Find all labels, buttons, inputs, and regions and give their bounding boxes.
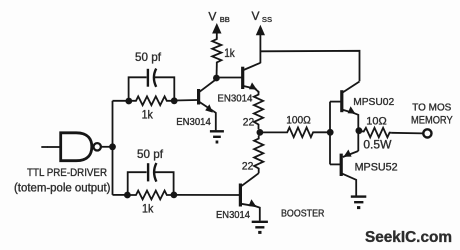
svg-text:10Ω: 10Ω xyxy=(366,115,387,127)
resistor R3 22 (top) xyxy=(254,92,263,130)
NAND gate U1 TTL pre-driver xyxy=(48,133,101,161)
node top RC left dot xyxy=(125,98,132,105)
wire bottom RC to Q3 base xyxy=(174,194,239,196)
node B junction dot xyxy=(213,75,220,82)
svg-text:1k: 1k xyxy=(224,46,235,60)
svg-text:EN3014: EN3014 xyxy=(176,116,211,128)
svg-text:EN3014: EN3014 xyxy=(217,92,252,104)
ground below Q1 xyxy=(210,131,224,142)
transistor Q2 EN3014 xyxy=(243,63,261,93)
resistor R1 1k (top) xyxy=(129,96,174,105)
wire to MPSU52 base xyxy=(330,163,340,165)
svg-text:50 pf: 50 pf xyxy=(137,147,164,161)
transistor Q3 EN3014 booster xyxy=(240,173,259,221)
resistor R6 10 ohm 0.5W xyxy=(359,128,392,138)
wire VSS rail to MPSU02 collector corner xyxy=(260,51,359,82)
wire top RC to Q1 base xyxy=(174,99,197,102)
wire base bus of output pair xyxy=(329,102,331,165)
svg-text:BB: BB xyxy=(220,15,230,24)
wire R2 to node B xyxy=(216,65,218,79)
node A junction dot at NAND output xyxy=(109,143,116,150)
svg-text:100Ω: 100Ω xyxy=(286,115,311,127)
resistor R4 22 (bottom) xyxy=(254,136,263,174)
svg-text:TO MOS: TO MOS xyxy=(412,101,451,113)
resistor R2 1k (VBB) xyxy=(212,38,221,65)
power VBB supply arrow xyxy=(212,23,221,38)
svg-text:TTL PRE-DRIVER: TTL PRE-DRIVER xyxy=(27,167,107,179)
svg-text:22: 22 xyxy=(242,160,254,172)
power VSS supply arrow xyxy=(256,25,265,63)
node bottom RC right dot xyxy=(171,192,178,199)
wire main vertical bus from top RC to bottom RC xyxy=(112,101,114,195)
svg-text:50 pf: 50 pf xyxy=(135,50,162,64)
capacitor C1 50 pf xyxy=(148,69,156,87)
wire top RC loop frame xyxy=(129,77,175,101)
svg-text:SS: SS xyxy=(262,15,272,24)
node E junction dot emitters xyxy=(356,127,363,134)
svg-text:MEMORY: MEMORY xyxy=(411,114,453,126)
svg-text:0.5W: 0.5W xyxy=(363,137,392,151)
svg-text:1k: 1k xyxy=(142,201,154,215)
wire NAND input xyxy=(41,146,48,148)
node bottom RC left dot xyxy=(124,192,131,199)
ground below Q5 xyxy=(351,197,367,208)
wire node to top RC left xyxy=(113,100,129,102)
svg-text:V: V xyxy=(208,9,216,23)
svg-text:22: 22 xyxy=(243,116,254,128)
svg-text:MPSU02: MPSU02 xyxy=(353,96,394,108)
svg-text:1k: 1k xyxy=(142,107,154,121)
resistor R7 1k (bottom) xyxy=(127,191,173,200)
ground below Q3 xyxy=(252,222,268,233)
transistor Q1 EN3014 xyxy=(199,80,216,131)
resistor R5 100 ohm xyxy=(260,128,330,138)
transistor Q4 MPSU02 xyxy=(342,82,360,131)
svg-text:EN3014: EN3014 xyxy=(216,209,250,221)
svg-text:V: V xyxy=(252,9,260,23)
wire node B to Q2 base xyxy=(216,77,241,79)
output terminal circle TO MOS MEMORY xyxy=(423,129,431,137)
wire NAND output to node A xyxy=(101,146,113,148)
node D junction dot 100ohm to bases xyxy=(327,129,334,136)
wire R6 to output terminal xyxy=(392,132,423,135)
wire node A bus to bottom RC xyxy=(113,194,128,196)
wire bottom RC loop frame xyxy=(128,172,174,195)
svg-text:BOOSTER: BOOSTER xyxy=(281,208,325,220)
transistor Q5 MPSU52 (PNP) xyxy=(341,131,358,196)
svg-text:SeekIC.com: SeekIC.com xyxy=(365,229,452,246)
wire to MPSU02 base xyxy=(330,101,341,103)
node C junction dot between 22s xyxy=(257,129,264,136)
svg-text:(totem-pole output): (totem-pole output) xyxy=(14,182,111,194)
svg-text:MPSU52: MPSU52 xyxy=(355,162,398,174)
node top RC right dot xyxy=(171,97,178,104)
capacitor C2 50 pf xyxy=(148,163,156,182)
